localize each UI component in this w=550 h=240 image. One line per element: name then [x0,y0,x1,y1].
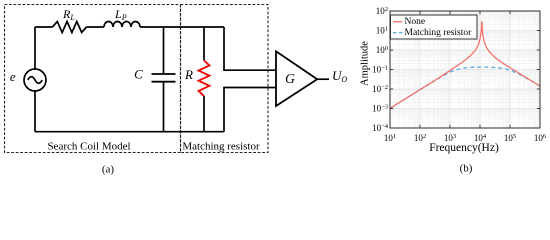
svg-text:Search Coil Model: Search Coil Model [47,141,130,153]
wire to amp upper input [224,27,276,70]
wire to amp lower input [224,88,276,132]
svg-text:C: C [134,66,143,81]
svg-text:Frequency(Hz): Frequency(Hz) [429,142,499,154]
svg-text:(a): (a) [102,163,115,175]
legend Matching resistor [393,32,403,34]
svg-text:(b): (b) [460,163,473,175]
op-amp G [276,51,317,106]
x tick labels [384,133,547,143]
curve None (red) [390,21,540,108]
svg-text:Matching resistor: Matching resistor [182,141,260,153]
curve Matching resistor (blue dashed) [390,67,540,108]
svg-text:e: e [10,69,16,84]
ticks [390,11,540,128]
capacitor C [152,74,176,82]
source e [24,69,46,91]
axes frame [390,11,540,128]
legend box [391,15,478,39]
resistor R lead bottom [203,96,205,132]
resistor R (red) [199,60,210,96]
svg-text:R: R [184,67,193,82]
wire source bottom [34,91,36,132]
wire top right [140,26,224,28]
capacitor C lead top [163,27,165,74]
svg-text:Amplitude: Amplitude [360,41,371,86]
wire top left [35,26,52,28]
major grid [390,11,540,128]
capacitor C lead bottom [163,82,165,132]
wire bottom [35,131,224,133]
y tick labels [372,6,389,133]
svg-text:G: G [285,71,295,86]
resistor R lead top [203,27,205,60]
minor grid [390,11,540,128]
resistor RL [52,22,86,33]
wire source top [34,27,36,69]
chart plot area [360,6,547,175]
matching resistor dashed box [181,5,269,153]
svg-text:None: None [405,17,426,27]
legend None [393,21,403,23]
wire amp output [317,78,329,80]
search coil model dashed box [5,5,181,153]
svg-text:Matching resistor: Matching resistor [405,28,473,38]
wire RL to LP [87,26,104,28]
inductor LP [104,22,140,28]
